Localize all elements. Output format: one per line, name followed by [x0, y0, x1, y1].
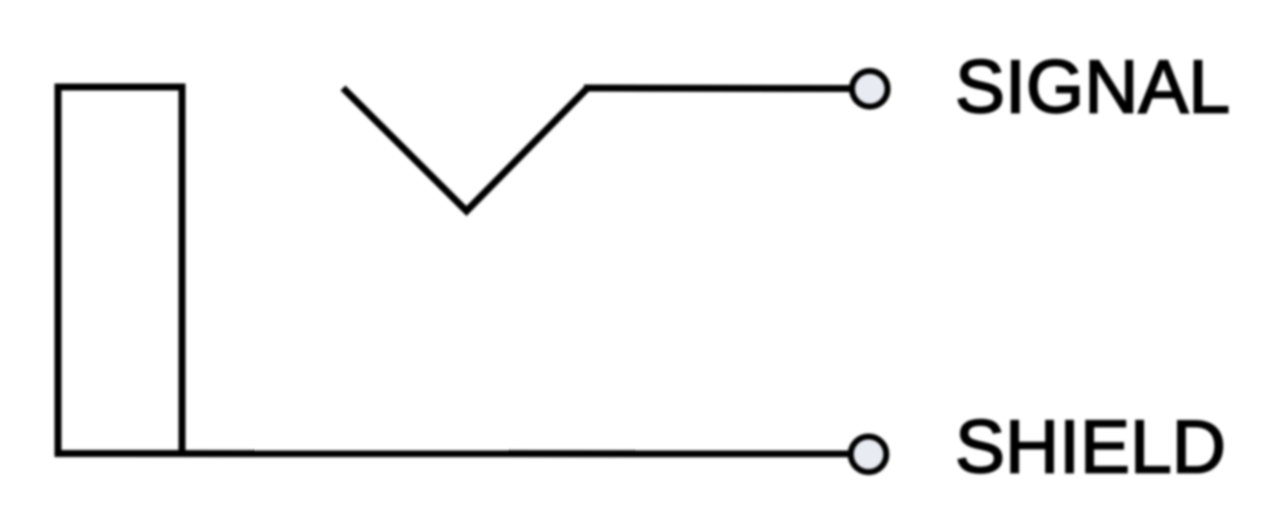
terminal pin SIGNAL (open circle): [852, 71, 888, 107]
jack body J1 (sleeve rectangle): [58, 87, 182, 454]
terminal pin SHIELD (open circle): [851, 437, 887, 473]
wire (sleeve to SHIELD terminal): [58, 450, 856, 457]
svg-text:SIGNAL: SIGNAL: [955, 45, 1230, 129]
wire (tip contact spring / switch arm): [343, 88, 588, 211]
svg-text:SHIELD: SHIELD: [955, 405, 1226, 489]
wire (tip arm to SIGNAL terminal): [584, 85, 856, 93]
